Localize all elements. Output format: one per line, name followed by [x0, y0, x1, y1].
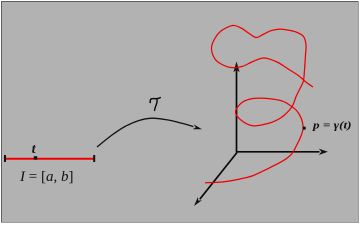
- diagonal axis: [200, 153, 237, 200]
- red space curve gamma(t) spiral: [205, 25, 313, 182]
- vertical axis arrowhead: [233, 62, 239, 73]
- gamma map arrow (curved): [97, 118, 193, 147]
- horizontal axis: [237, 151, 320, 153]
- interval I red segment: [6, 158, 94, 160]
- svg-text:p = γ(t): p = γ(t): [312, 121, 352, 132]
- svg-text:I = [a, b]: I = [a, b]: [19, 169, 73, 185]
- vertical axis: [236, 70, 238, 153]
- tick a (left endpoint): [4, 155, 6, 162]
- diagonal axis arrowhead: [194, 197, 202, 206]
- point p dot: [303, 127, 306, 130]
- horizontal axis arrowhead: [319, 149, 328, 155]
- label gamma: [150, 98, 160, 111]
- tick b (right endpoint): [93, 155, 95, 162]
- point t dot: [34, 156, 37, 159]
- gamma map arrowhead: [193, 124, 202, 129]
